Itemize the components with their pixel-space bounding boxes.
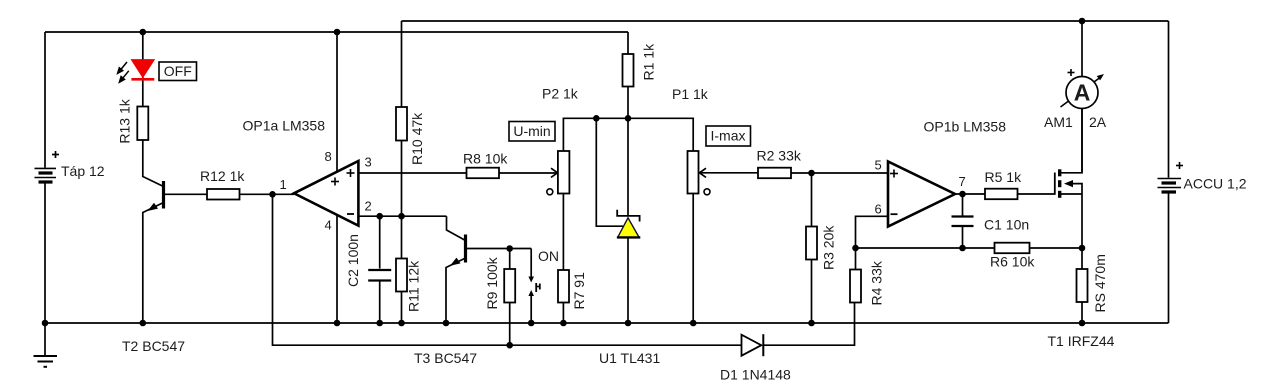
wire T3 base line (466, 248, 532, 250)
node dot switch bottom on rail (528, 320, 535, 327)
resistor R8 10k (467, 168, 500, 179)
resistor R4 33k (850, 248, 861, 303)
node dot R7 bottom (560, 320, 567, 327)
wire OP1a pin2 line (358, 215, 446, 217)
svg-text:C2 100n: C2 100n (345, 234, 361, 287)
svg-text:U-min: U-min (513, 123, 550, 139)
wire R10 bottom to node (401, 141, 403, 259)
node dot R11 bottom (398, 320, 405, 327)
node dot R10/R11 junction (398, 213, 405, 220)
resistor R9 100k (504, 249, 515, 346)
svg-text:T2 BC547: T2 BC547 (122, 338, 185, 354)
svg-text:P1 1k: P1 1k (672, 86, 709, 102)
plus mark battery B1 (52, 151, 59, 158)
minus mark OP1a pin2 (347, 213, 354, 215)
wire top rail A (battery+ to R1) (45, 31, 628, 33)
resistor R5 1k (985, 189, 1018, 200)
node dot TL431 anode on rail (625, 320, 632, 327)
shunt regulator U1 TL431 (596, 118, 640, 323)
svg-text:R9 100k: R9 100k (484, 256, 500, 309)
resistor RS 470m (1077, 248, 1088, 323)
plus mark OP1a pin3 (347, 169, 355, 177)
svg-text:T3 BC547: T3 BC547 (414, 350, 477, 366)
svg-text:R7 91: R7 91 (571, 272, 587, 310)
svg-text:8: 8 (325, 149, 332, 164)
svg-text:OP1a LM358: OP1a LM358 (243, 118, 326, 134)
battery B1 Tap 12 (35, 32, 57, 323)
svg-text:2: 2 (365, 199, 372, 214)
capacitor C2 100n (368, 216, 391, 323)
svg-text:OFF: OFF (164, 63, 192, 79)
label U-min box (509, 122, 555, 142)
svg-text:4: 4 (325, 218, 332, 233)
minus mark OP1b pin6 (891, 213, 898, 215)
node dot C1 bottom (959, 245, 966, 252)
svg-text:R3 20k: R3 20k (821, 225, 837, 270)
svg-text:ACCU 1,2: ACCU 1,2 (1184, 176, 1247, 192)
node dot R1 bottom / TL431 cathode (625, 115, 632, 122)
wire R11 bottom to rail (401, 292, 403, 324)
node dot R9 top (506, 245, 513, 252)
wire R10 top from rail B (401, 21, 403, 107)
svg-text:R11 12k: R11 12k (406, 260, 422, 312)
wire lower net (OP1a out / D1 / R4) (273, 194, 742, 345)
wire OP1a pin3 line to P2 wiper (358, 172, 556, 174)
node dot C2 top (376, 213, 383, 220)
switch S1 ON (pushbutton) (528, 249, 539, 324)
op-amp OP1a LM358 (left pointing) (294, 161, 358, 226)
svg-text:AM1: AM1 (1044, 114, 1073, 130)
svg-text:RS 470m: RS 470m (1092, 254, 1108, 312)
ground (34, 323, 58, 367)
battery B2 ACCU 1,2 (1158, 21, 1182, 323)
resistor R2 33k (758, 168, 791, 179)
wire R12 to OP1a output node (240, 193, 295, 195)
svg-text:T1 IRFZ44: T1 IRFZ44 (1048, 333, 1115, 349)
svg-text:R13 1k: R13 1k (117, 98, 133, 143)
svg-text:R8 10k: R8 10k (463, 151, 508, 167)
wire T3 collector (447, 216, 466, 240)
resistor R12 1k (207, 189, 240, 200)
wire R13 to T2 collector (143, 140, 164, 187)
svg-text:2A: 2A (1089, 114, 1107, 130)
svg-text:7: 7 (959, 174, 966, 189)
svg-text:D1 1N4148: D1 1N4148 (720, 367, 791, 383)
resistor R10 47k (396, 107, 407, 141)
resistor R6 10k (995, 243, 1030, 254)
svg-text:R10 47k: R10 47k (409, 112, 425, 165)
wire top rail B (R10 top to ACCU+) (402, 20, 1169, 22)
node dot R3 bottom on rail (808, 320, 815, 327)
plus mark OP1a supply (331, 178, 339, 186)
svg-text:1: 1 (280, 177, 287, 192)
wire bottom ground rail (45, 322, 1169, 324)
wire R7 bottom to rail (562, 303, 564, 324)
label I-max box (706, 126, 751, 146)
LED light arrows (118, 62, 129, 82)
svg-text:ON: ON (538, 248, 559, 264)
resistor R3 20k (806, 173, 817, 323)
P1 wiper arrowhead (700, 168, 707, 177)
wire OP1b pin6 to feedback node (856, 216, 888, 248)
potentiometer P2 1k (547, 151, 570, 270)
node dot OP1a output (269, 191, 276, 198)
svg-text:R1 1k: R1 1k (641, 43, 657, 81)
svg-text:R6 10k: R6 10k (990, 254, 1035, 270)
svg-text:P2 1k: P2 1k (542, 86, 579, 102)
node dot ground rail left end (42, 320, 49, 327)
resistor R11 12k (396, 259, 407, 292)
ammeter AM1 (1061, 21, 1105, 173)
svg-text:3: 3 (365, 155, 372, 170)
wire LED branch down (142, 32, 144, 107)
potentiometer P1 1k (688, 151, 711, 323)
svg-text:R2 33k: R2 33k (757, 148, 802, 164)
plus mark ammeter (1068, 69, 1075, 76)
resistor R1 1k (623, 32, 634, 118)
node dot P1 bottom on rail (690, 320, 697, 327)
resistor R7 91 (558, 270, 569, 303)
node dot OP1b output (959, 191, 966, 198)
node dot pin8 on rail A (334, 29, 341, 36)
svg-text:A: A (1074, 80, 1091, 106)
plus mark ACCU (1176, 162, 1183, 169)
svg-text:6: 6 (875, 202, 882, 217)
LED D2 red (131, 60, 154, 80)
resistor R13 1k (137, 107, 148, 141)
transistor T1 IRFZ44 MOSFET (1055, 109, 1082, 249)
svg-text:OP1b LM358: OP1b LM358 (924, 119, 1007, 135)
node dot source/R6/RS junction (1079, 245, 1086, 252)
capacitor C1 10n (952, 194, 974, 248)
node dot ammeter on rail B (1079, 18, 1086, 25)
node dot TL431 ref branch (593, 115, 600, 122)
wire node line P2-P1 top (563, 118, 693, 151)
node dot pin6/R4 junction (852, 245, 859, 252)
wire OP1b output to R5 (955, 193, 985, 195)
wire feedback line R4/C1/R6 (856, 247, 1083, 249)
svg-text:U1 TL431: U1 TL431 (599, 350, 660, 366)
node dot R9 bottom on lower net (506, 342, 513, 349)
transistor T3 BC547 (446, 235, 466, 324)
node dot C2 bottom on rail (376, 320, 383, 327)
transistor T2 BC547 (143, 181, 164, 323)
wire R2 to OP1b pin5 (791, 172, 887, 174)
svg-text:Táp 12: Táp 12 (61, 163, 105, 179)
node dot RS bottom on rail (1079, 320, 1086, 327)
wire OP1a supply pin8 from rail A (336, 32, 338, 180)
wire P1 wiper to R2 (701, 172, 758, 174)
wire OP1a pin4 to ground rail (336, 210, 338, 323)
svg-text:5: 5 (875, 158, 882, 173)
op-amp OP1b LM358 (right pointing) (888, 162, 955, 227)
wire D1 cathode to R4 bottom (763, 303, 854, 346)
svg-text:I-max: I-max (711, 128, 746, 144)
node dot T2 emitter on rail (140, 320, 147, 327)
svg-text:R12 1k: R12 1k (200, 168, 245, 184)
P2 wiper arrowhead (551, 168, 558, 177)
wire R5 to MOSFET gate (1018, 193, 1055, 195)
diode D1 1N4148 (742, 334, 764, 356)
svg-text:R5 1k: R5 1k (985, 169, 1023, 185)
svg-text:C1 10n: C1 10n (984, 217, 1029, 233)
label OFF box (159, 62, 197, 81)
node dot pin4 on rail (334, 320, 341, 327)
svg-text:R4 33k: R4 33k (869, 260, 885, 305)
node dot T3 emitter on rail (443, 320, 450, 327)
wire T2 base to R12 (164, 193, 208, 195)
plus mark OP1b pin5 (890, 170, 898, 178)
node dot rail A / LED branch (140, 29, 147, 36)
node dot R3 top (808, 170, 815, 177)
